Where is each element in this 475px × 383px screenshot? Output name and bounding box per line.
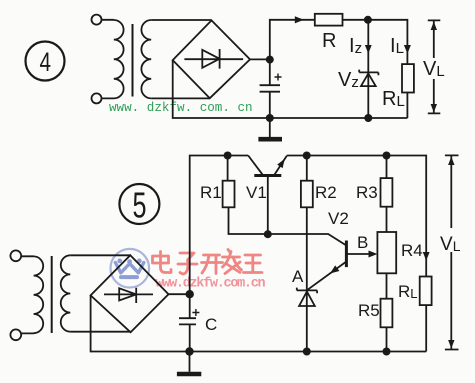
svg-text:www. dzkfw. com. cn: www. dzkfw. com. cn bbox=[109, 101, 253, 115]
svg-text:R: R bbox=[322, 30, 336, 52]
svg-text:RL: RL bbox=[398, 282, 418, 301]
svg-text:Iz: Iz bbox=[349, 35, 362, 57]
svg-text:Vz: Vz bbox=[338, 69, 359, 91]
svg-text:V2: V2 bbox=[328, 209, 349, 228]
svg-text:R1: R1 bbox=[200, 183, 222, 202]
svg-text:C: C bbox=[205, 315, 217, 334]
svg-text:R5: R5 bbox=[358, 301, 380, 320]
svg-text:B: B bbox=[357, 233, 368, 252]
svg-text:IL: IL bbox=[390, 35, 404, 57]
svg-text:V1: V1 bbox=[246, 183, 267, 202]
svg-text:VL: VL bbox=[423, 58, 445, 80]
svg-text:R2: R2 bbox=[315, 183, 337, 202]
svg-text:5: 5 bbox=[133, 185, 147, 226]
svg-text:A: A bbox=[292, 267, 304, 286]
svg-text:4: 4 bbox=[40, 47, 52, 77]
svg-text:www.dzkfw.com.cn: www.dzkfw.com.cn bbox=[156, 277, 266, 292]
svg-text:R4: R4 bbox=[401, 241, 423, 260]
svg-text:VL: VL bbox=[440, 234, 461, 255]
svg-text:R3: R3 bbox=[356, 183, 378, 202]
